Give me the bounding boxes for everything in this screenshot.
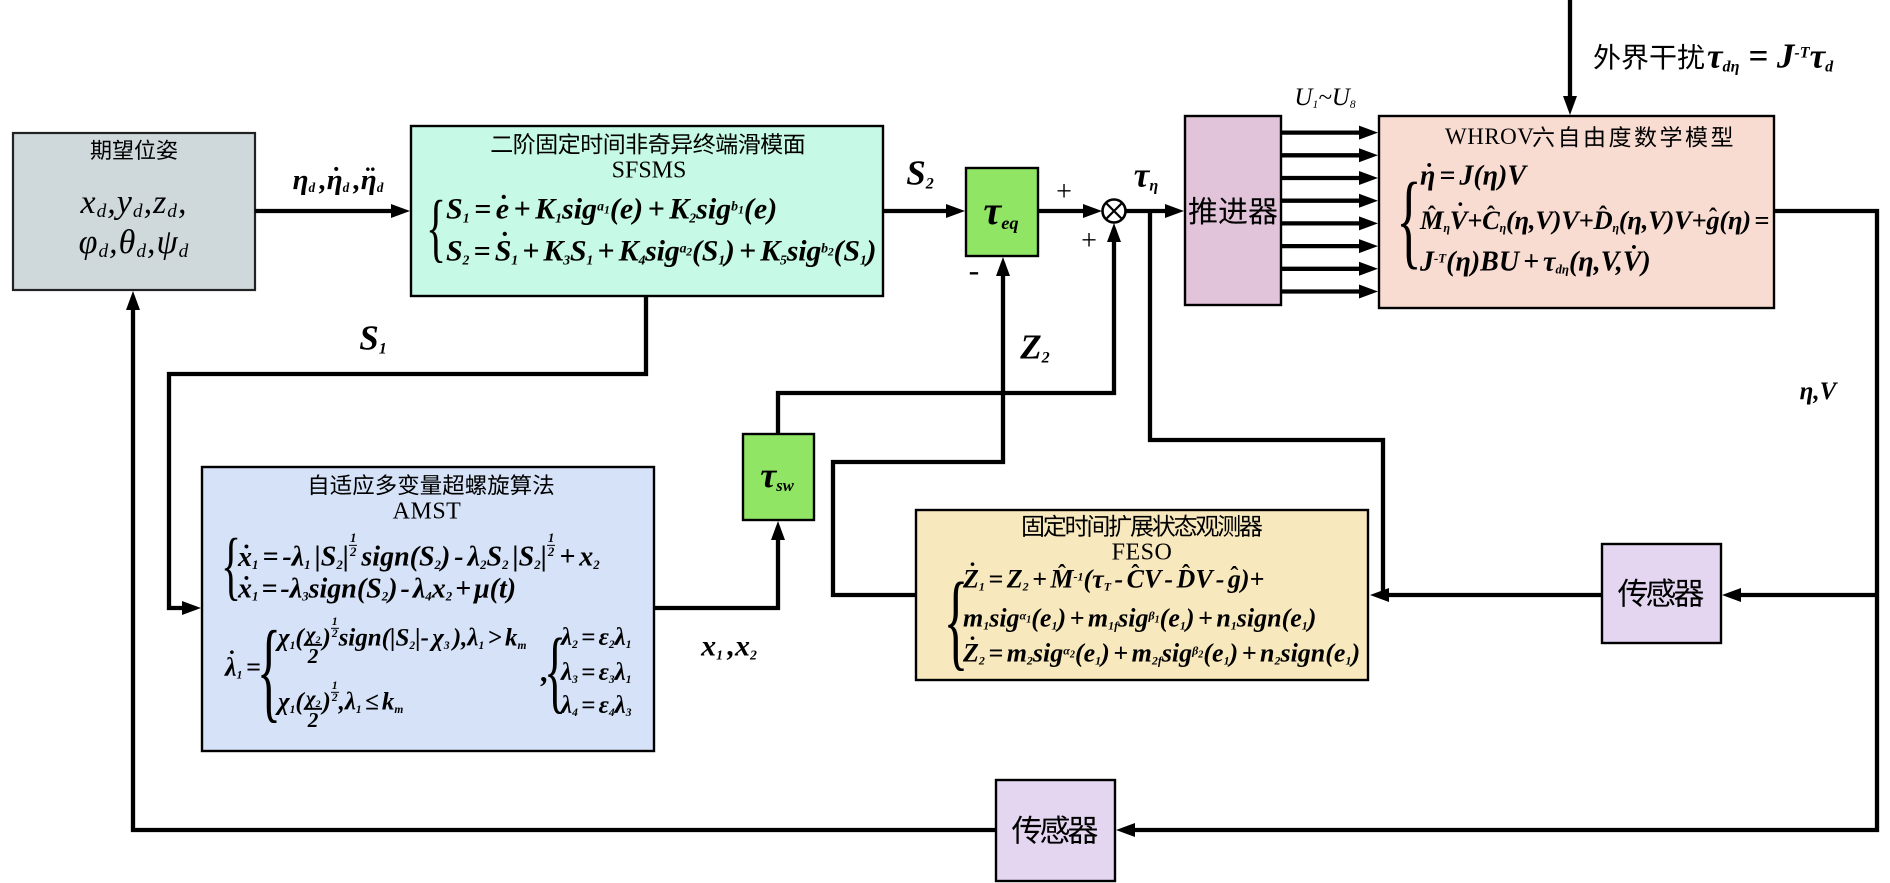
thruster U1-U8 arrows bbox=[1281, 130, 1372, 134]
AMST latin subtitle bbox=[393, 499, 462, 524]
box thruster 推进器 bbox=[1185, 116, 1281, 305]
wire SFSMS to tau_eq bbox=[883, 209, 959, 213]
label tau_eta bbox=[1134, 158, 1158, 195]
wire tau_eta tap down to FESO input bbox=[1150, 211, 1383, 595]
label eta_d derivatives bbox=[293, 165, 384, 195]
AMST comma between groups bbox=[541, 656, 549, 689]
AMST lambda list brace bbox=[544, 623, 566, 720]
AMST lambda3 bbox=[561, 660, 631, 686]
label tau_sw bbox=[760, 457, 793, 495]
wire S1 from SFSMS down to AMST bbox=[169, 296, 646, 608]
desired pose math lines bbox=[81, 185, 188, 221]
label disturbance 外界干扰 bbox=[1594, 44, 1704, 70]
wire desired-pose to SFSMS bbox=[255, 209, 404, 213]
AMST equation x1dot b bbox=[238, 574, 516, 603]
box SFSMS sliding-surface bbox=[411, 126, 883, 296]
FESO equation brace bbox=[944, 564, 969, 677]
wire AMST output x1,x2 to tau_sw bbox=[654, 527, 778, 608]
WHROV equation line3 bbox=[1420, 247, 1651, 276]
label Z2 bbox=[1020, 330, 1049, 367]
AMST lambda2 bbox=[561, 625, 631, 651]
label eta,V bbox=[1800, 379, 1837, 405]
sum junction circle-times bbox=[1103, 200, 1126, 223]
label tau_eq bbox=[983, 190, 1018, 232]
WHROV equation line2 bbox=[1420, 207, 1769, 235]
label x1,x2 bbox=[701, 630, 757, 662]
wire sum junction to thruster bbox=[1126, 209, 1178, 213]
label disturbance math bbox=[1707, 39, 1833, 76]
label S1 bbox=[359, 321, 387, 358]
label thruster 推进器 bbox=[1189, 197, 1277, 225]
branch right trunk to right sensor bbox=[1728, 593, 1877, 597]
WHROV latin title bbox=[1445, 125, 1534, 149]
box desired-pose 期望位姿 bbox=[13, 133, 255, 290]
AMST lambda case 2 bbox=[278, 686, 403, 728]
label U1-U8 bbox=[1294, 85, 1355, 111]
wire bottom sensor to desired-pose box bbox=[133, 297, 996, 830]
label sensor right 传感器 bbox=[1618, 578, 1704, 607]
SFSMS latin subtitle bbox=[612, 158, 687, 183]
FESO equation Z2dot bbox=[963, 639, 1360, 666]
wire WHROV output right trunk down to bottom sensor bbox=[1122, 211, 1877, 830]
label AMST chinese title bbox=[311, 474, 554, 495]
label FESO chinese title bbox=[1023, 515, 1262, 537]
AMST lambda big brace bbox=[257, 613, 281, 731]
box FESO bbox=[916, 510, 1368, 680]
box sensor bottom 传感器 bbox=[996, 780, 1115, 881]
label 期望位姿 bbox=[91, 139, 177, 159]
label sensor bottom 传感器 bbox=[1012, 815, 1098, 844]
box tau_sw bbox=[743, 434, 814, 520]
label WHROV chinese title bbox=[1533, 126, 1732, 147]
AMST equation x1dot a bbox=[238, 542, 600, 572]
AMST lambda case 1 bbox=[278, 622, 526, 664]
FESO latin subtitle bbox=[1112, 540, 1173, 565]
box sensor right 传感器 bbox=[1602, 544, 1721, 643]
WHROV equation brace bbox=[1396, 164, 1421, 275]
box tau_eq bbox=[966, 168, 1038, 256]
AMST equation brace bbox=[221, 527, 241, 607]
disturbance arrow into WHROV top bbox=[1568, 0, 1572, 109]
AMST lambda4 bbox=[561, 693, 631, 719]
wire tau_eq to sum junction bbox=[1038, 209, 1096, 213]
label SFSMS chinese title bbox=[492, 133, 805, 154]
box AMST bbox=[202, 467, 654, 751]
label plus below sum bbox=[1081, 226, 1097, 255]
wire right sensor output to FESO bbox=[1376, 593, 1602, 597]
wire FESO Z2 output to tau_eq minus input bbox=[833, 263, 1003, 595]
AMST lambda1dot lhs bbox=[225, 653, 261, 680]
SFSMS equation S2 bbox=[446, 235, 876, 267]
wire tau_sw output to sum junction plus bbox=[778, 229, 1114, 434]
FESO equation Z1dot bbox=[963, 565, 1264, 592]
label plus above sum bbox=[1056, 177, 1072, 206]
FESO equation m1 line bbox=[963, 604, 1316, 631]
SFSMS equation brace bbox=[426, 189, 446, 269]
SFSMS equation S1 bbox=[446, 193, 777, 225]
WHROV equation line1 bbox=[1420, 161, 1526, 190]
label minus at tau_eq bbox=[969, 254, 980, 288]
box WHROV model bbox=[1379, 116, 1774, 308]
label S2 bbox=[906, 156, 934, 193]
